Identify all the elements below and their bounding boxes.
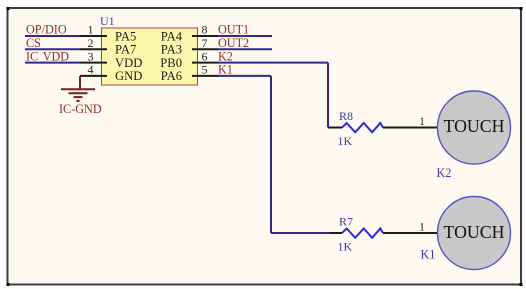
wire net K1 horizontal bbox=[218, 75, 271, 77]
svg-text:6: 6 bbox=[202, 49, 208, 63]
wire net CS bbox=[25, 48, 80, 50]
wire net IC_VDD bbox=[25, 62, 80, 64]
svg-text:TOUCH: TOUCH bbox=[444, 222, 505, 242]
svg-text:1K: 1K bbox=[338, 240, 353, 254]
pin 8 lead bbox=[192, 35, 218, 37]
svg-text:2: 2 bbox=[88, 36, 94, 50]
resistor R8 left lead bbox=[328, 127, 342, 129]
resistor R7 left lead bbox=[330, 232, 342, 234]
resistor R8 zigzag bbox=[342, 123, 383, 132]
pin 1 lead bbox=[80, 35, 107, 37]
svg-text:K2: K2 bbox=[218, 49, 233, 63]
svg-text:U1: U1 bbox=[100, 14, 115, 28]
svg-text:PA5: PA5 bbox=[115, 29, 136, 43]
svg-text:K1: K1 bbox=[218, 63, 233, 77]
wire net OP/DIO bbox=[25, 35, 80, 37]
pin 7 lead bbox=[192, 48, 218, 50]
resistor R8 right lead bbox=[383, 127, 438, 129]
svg-text:R8: R8 bbox=[339, 109, 353, 123]
frame corner dots bbox=[7, 7, 10, 10]
resistor R7 zigzag bbox=[342, 229, 383, 238]
svg-text:K1: K1 bbox=[421, 248, 436, 262]
svg-text:OUT1: OUT1 bbox=[218, 23, 249, 37]
wire net K1 bottom horizontal bbox=[271, 232, 330, 234]
wire net K1 vertical bbox=[270, 76, 272, 233]
svg-text:IC-GND: IC-GND bbox=[59, 102, 102, 116]
svg-text:K2: K2 bbox=[437, 166, 452, 180]
svg-text:PB0: PB0 bbox=[160, 56, 182, 70]
touch pad K2 circle bbox=[438, 91, 511, 164]
svg-text:1: 1 bbox=[88, 23, 94, 37]
svg-text:5: 5 bbox=[202, 63, 208, 77]
pin 3 lead bbox=[80, 62, 107, 64]
wire net K2 vertical bbox=[327, 63, 329, 128]
svg-text:R7: R7 bbox=[339, 215, 353, 229]
svg-text:7: 7 bbox=[202, 36, 208, 50]
wire net OUT2 bbox=[218, 48, 272, 50]
svg-text:PA6: PA6 bbox=[161, 69, 182, 83]
svg-text:1K: 1K bbox=[338, 134, 353, 148]
svg-text:CS: CS bbox=[26, 36, 41, 50]
pin 6 lead bbox=[192, 62, 218, 64]
wire net K2 horizontal bbox=[218, 62, 328, 64]
ground wire from pin 4 bbox=[79, 76, 81, 89]
svg-text:OUT2: OUT2 bbox=[218, 36, 249, 50]
svg-text:1: 1 bbox=[419, 220, 425, 234]
svg-text:ICVDD: ICVDD bbox=[26, 49, 69, 63]
svg-text:GND: GND bbox=[115, 69, 142, 83]
svg-text:OP/DIO: OP/DIO bbox=[26, 23, 67, 37]
wire net OUT1 bbox=[218, 35, 272, 37]
pin 2 lead bbox=[80, 48, 107, 50]
svg-text:4: 4 bbox=[88, 63, 94, 77]
svg-text:8: 8 bbox=[202, 23, 208, 37]
svg-text:PA4: PA4 bbox=[161, 29, 183, 43]
touch pad K1 circle bbox=[438, 197, 511, 270]
pin 5 lead bbox=[192, 75, 218, 77]
svg-text:3: 3 bbox=[88, 49, 94, 63]
IC U1 body bbox=[102, 28, 198, 85]
svg-text:PA7: PA7 bbox=[115, 43, 136, 57]
ground IC-GND symbol bbox=[61, 89, 95, 101]
resistor R7 right lead bbox=[383, 232, 438, 234]
svg-text:1: 1 bbox=[419, 114, 425, 128]
pin 4 lead bbox=[80, 75, 107, 77]
svg-text:VDD: VDD bbox=[115, 56, 142, 70]
svg-text:TOUCH: TOUCH bbox=[444, 116, 505, 136]
svg-text:PA3: PA3 bbox=[161, 43, 182, 57]
